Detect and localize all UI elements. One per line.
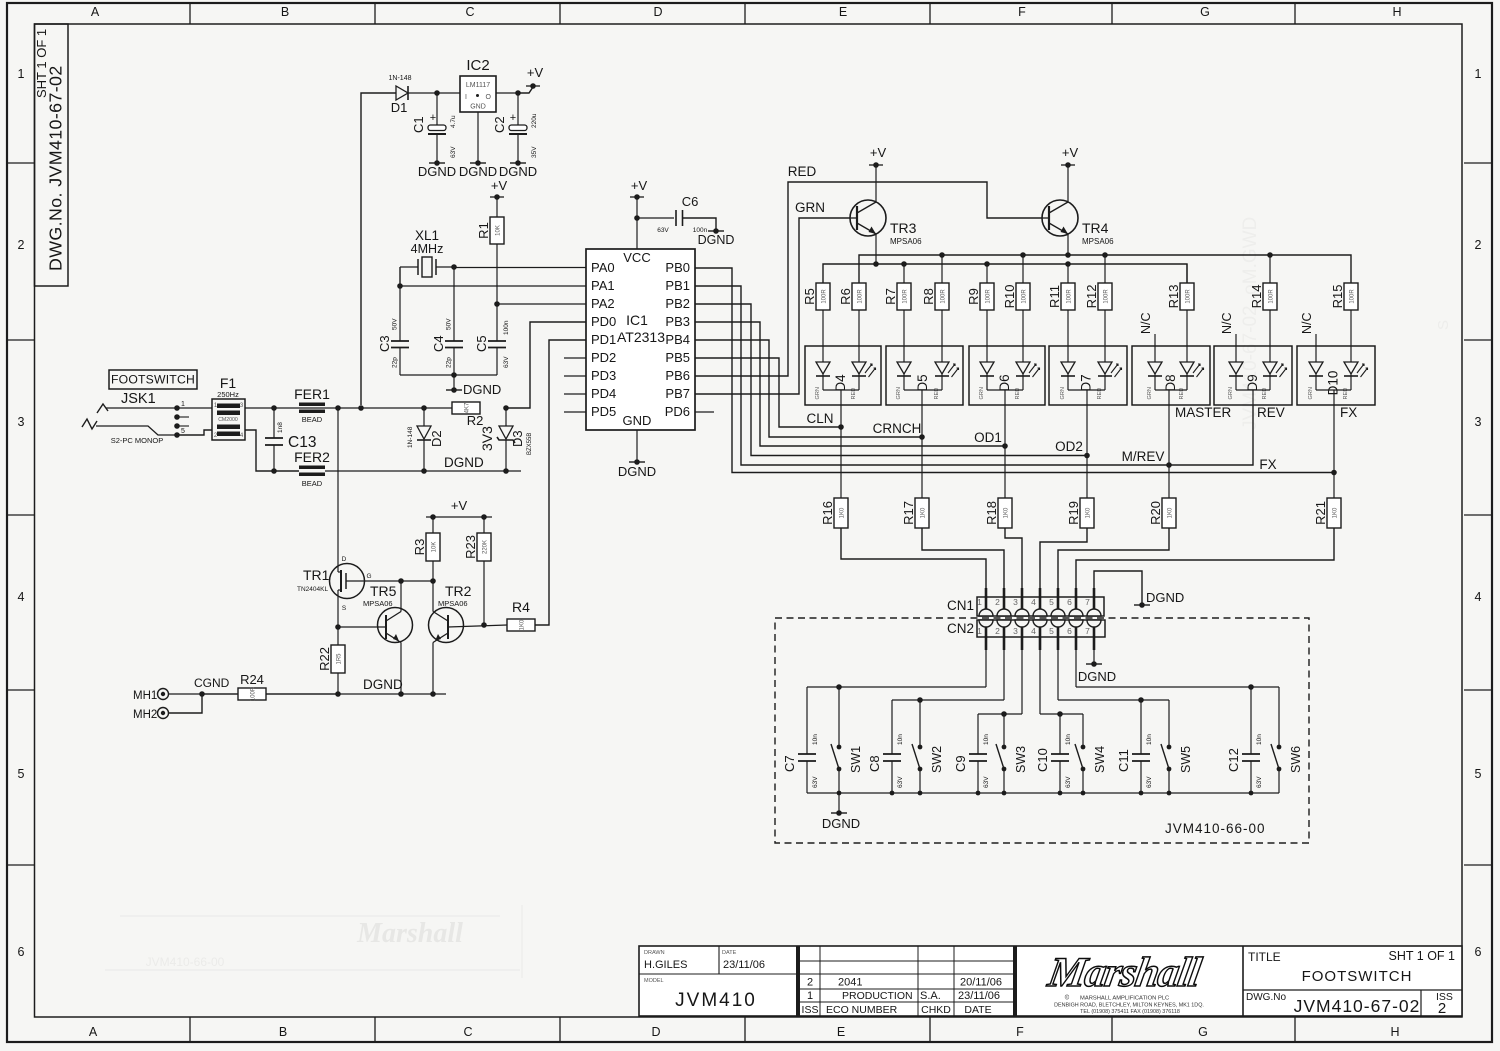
- transistor TR4 (RED driver): [1042, 200, 1078, 236]
- svg-text:1: 1: [1475, 67, 1482, 81]
- LED D9 GRN: [1229, 362, 1243, 374]
- svg-text:IC2: IC2: [466, 57, 489, 74]
- LED D4 GRN: [816, 362, 830, 374]
- svg-text:1: 1: [977, 597, 982, 607]
- svg-text:C9: C9: [953, 755, 968, 772]
- svg-text:+V: +V: [491, 178, 508, 193]
- switch SW4: [1082, 714, 1084, 747]
- svg-text:S: S: [1435, 320, 1452, 330]
- wire TR4 collector to RED bus: [1067, 234, 1069, 255]
- title block title section: [1242, 946, 1244, 1016]
- wire R18 to CN1 pin 3: [1005, 528, 1022, 600]
- node TR5 emitter junction: [398, 691, 404, 697]
- svg-text:D7: D7: [1079, 374, 1094, 391]
- title block thick divider 2: [1013, 946, 1017, 1016]
- svg-text:H.GILES: H.GILES: [644, 959, 687, 971]
- svg-text:1: 1: [807, 990, 813, 1002]
- svg-text:Marshall: Marshall: [1044, 949, 1205, 996]
- svg-text:D: D: [342, 556, 347, 563]
- svg-text:TR1: TR1: [303, 567, 330, 583]
- svg-text:ECO NUMBER: ECO NUMBER: [826, 1004, 898, 1016]
- capacitor C2: [517, 93, 519, 125]
- label FOOTSWITCH: [109, 370, 197, 389]
- node TR1 drain junction: [335, 405, 341, 411]
- svg-text:ISS: ISS: [802, 1004, 819, 1016]
- svg-text:5: 5: [1049, 597, 1054, 607]
- svg-text:DGND: DGND: [418, 164, 456, 179]
- wire D4 cathode to CLN: [840, 405, 842, 427]
- wire TR1 gate node: [365, 580, 434, 582]
- svg-text:TR3: TR3: [890, 220, 917, 236]
- svg-text:R17: R17: [901, 501, 916, 525]
- switch SW5: [1168, 700, 1170, 747]
- svg-text:4: 4: [1031, 626, 1036, 636]
- JSK1 pin 2 stub: [174, 414, 180, 420]
- svg-text:1n8: 1n8: [277, 422, 284, 433]
- svg-text:R7: R7: [883, 288, 898, 305]
- wire D6 cathode join: [987, 389, 1023, 391]
- wire R16 to CN1 pin 1: [841, 528, 986, 600]
- svg-text:JVM410-67-02 .oM.GWD: JVM410-67-02 .oM.GWD: [1240, 217, 1261, 430]
- svg-text:FOOTSWITCH: FOOTSWITCH: [1302, 968, 1413, 985]
- ECO revision table: [800, 960, 1013, 962]
- capacitor C8 10n: [891, 700, 893, 754]
- svg-text:D2: D2: [429, 430, 444, 447]
- CN2 pin 3: [1015, 620, 1029, 627]
- svg-text:C5: C5: [474, 335, 489, 352]
- svg-text:2: 2: [807, 977, 813, 989]
- node CLN junction: [838, 424, 844, 430]
- CN1 pin 1: [979, 609, 993, 616]
- svg-text:MPSA06: MPSA06: [1082, 237, 1114, 246]
- svg-text:GRN: GRN: [979, 387, 985, 399]
- frame column tick dividers top: [189, 3, 191, 24]
- svg-text:D: D: [653, 5, 662, 19]
- wire TR3 collector to GRN bus: [875, 234, 877, 264]
- wire MH1 to R24: [169, 693, 239, 695]
- resistor R5 100R: [816, 283, 830, 310]
- wire PB0 to FX net: [695, 268, 1334, 473]
- svg-text:D6: D6: [997, 374, 1012, 391]
- svg-text:GRN: GRN: [1147, 387, 1153, 399]
- svg-text:R3: R3: [412, 539, 427, 556]
- resistor R8 100R: [941, 255, 943, 283]
- node TR4 collector junction: [1065, 252, 1071, 258]
- svg-text:MH2: MH2: [133, 709, 157, 721]
- svg-text:+V: +V: [870, 145, 887, 160]
- svg-text:C10: C10: [1035, 748, 1050, 772]
- MOSFET TR1 TN2404KL: [337, 408, 339, 572]
- node TR1 source junction: [335, 624, 341, 630]
- node C10 rail junction: [1057, 711, 1063, 717]
- node TR2 emitter junction: [430, 691, 436, 697]
- svg-text:63V: 63V: [812, 776, 819, 788]
- svg-text:DRAWN: DRAWN: [644, 950, 665, 956]
- resistor R14 100R: [1269, 255, 1271, 283]
- svg-text:PA2: PA2: [591, 296, 615, 311]
- svg-text:GRN: GRN: [1228, 387, 1234, 399]
- node R1 PA2 junction: [494, 301, 500, 307]
- wire switch ground rail: [807, 792, 1279, 794]
- diode D1: [396, 86, 408, 100]
- node C11 rail junction: [1138, 697, 1144, 703]
- svg-text:N/C: N/C: [1139, 312, 1153, 334]
- svg-text:3: 3: [1475, 415, 1482, 429]
- resistor R18 1K0: [1004, 446, 1006, 498]
- node C2 top junction: [515, 90, 521, 96]
- svg-text:PB5: PB5: [665, 350, 690, 365]
- CN2 pin 1: [979, 620, 993, 627]
- svg-text:63V: 63V: [983, 776, 990, 788]
- transistor TR3 (GRN driver): [850, 200, 886, 236]
- ground DGND at C6: [708, 230, 724, 232]
- dual LED D9 package box: [1214, 346, 1292, 405]
- svg-text:CN2: CN2: [947, 621, 974, 636]
- wire MH2 to CGND node: [169, 694, 203, 713]
- svg-text:63V: 63V: [1146, 776, 1153, 788]
- dual LED D7 package box: [1049, 346, 1127, 405]
- svg-text:SW2: SW2: [930, 746, 944, 773]
- svg-text:63V: 63V: [1256, 776, 1263, 788]
- svg-text:BZX55B: BZX55B: [527, 433, 533, 455]
- resistor R10 100R: [1022, 255, 1024, 283]
- svg-text:2: 2: [995, 597, 1000, 607]
- svg-text:DGND: DGND: [698, 233, 735, 247]
- node D3 bottom junction: [503, 468, 509, 474]
- ground DGND at C2: [510, 162, 526, 164]
- wire D5 cathode join: [904, 389, 942, 391]
- svg-text:2041: 2041: [838, 977, 862, 989]
- JSK1 pin 5: [174, 432, 180, 438]
- svg-text:1K0: 1K0: [1004, 507, 1010, 518]
- node ground rail junction: [890, 791, 895, 796]
- svg-text:VCC: VCC: [623, 250, 650, 265]
- wire PB2 to OD2 net: [695, 304, 1087, 456]
- node ground rail junction: [918, 791, 923, 796]
- node R14 junction: [1267, 252, 1273, 258]
- svg-text:R24: R24: [240, 672, 264, 687]
- wire D8 cathode to M/REV: [1168, 405, 1170, 465]
- CN1 pin 3: [1015, 609, 1029, 616]
- CN2 pin 2: [997, 620, 1011, 627]
- svg-text:100R: 100R: [986, 289, 992, 304]
- wire D10 cathode to FX: [1333, 405, 1335, 473]
- svg-text:220K: 220K: [483, 540, 489, 554]
- svg-text:2: 2: [18, 238, 25, 252]
- svg-text:B: B: [279, 1025, 287, 1039]
- svg-text:R14: R14: [1249, 285, 1264, 309]
- svg-text:10n: 10n: [983, 734, 990, 745]
- node D2 bottom junction: [421, 468, 427, 474]
- capacitor C10 10n: [1059, 714, 1061, 754]
- svg-text:22p: 22p: [392, 357, 399, 368]
- svg-text:100R: 100R: [1350, 289, 1356, 304]
- svg-text:OD1: OD1: [974, 430, 1002, 445]
- svg-text:R13: R13: [1166, 285, 1181, 309]
- svg-text:R4: R4: [512, 599, 530, 615]
- svg-text:R9: R9: [966, 288, 981, 305]
- svg-text:1R5: 1R5: [337, 653, 343, 665]
- svg-text:63V: 63V: [503, 356, 510, 368]
- wire PA2 net: [497, 303, 586, 305]
- svg-text:C12: C12: [1226, 748, 1241, 772]
- svg-text:C3: C3: [377, 335, 392, 352]
- svg-text:10n: 10n: [1065, 734, 1072, 745]
- capacitor C9 10n: [977, 714, 979, 754]
- svg-text:4: 4: [1031, 597, 1036, 607]
- svg-text:DGND: DGND: [822, 816, 860, 831]
- svg-text:TEL (01908) 375411 FAX (01908): TEL (01908) 375411 FAX (01908) 376118: [1080, 1009, 1180, 1015]
- svg-text:23/11/06: 23/11/06: [723, 959, 765, 971]
- ground DGND at C1: [429, 162, 445, 164]
- LED D10 GRN: [1309, 362, 1323, 374]
- svg-text:FX: FX: [1259, 457, 1276, 472]
- svg-text:DGND: DGND: [363, 677, 403, 692]
- wire DGND bus lower: [200, 693, 446, 695]
- node R11 junction: [1065, 261, 1071, 267]
- node R10 junction: [1020, 252, 1026, 258]
- switch SW1: [838, 687, 840, 747]
- svg-text:TR5: TR5: [370, 583, 397, 599]
- svg-text:2: 2: [995, 626, 1000, 636]
- ground DGND at oscillator: [446, 389, 462, 391]
- capacitor C4: [453, 267, 455, 341]
- svg-text:GRN: GRN: [1060, 387, 1066, 399]
- node ground rail junction: [1139, 791, 1144, 796]
- svg-text:MODEL: MODEL: [644, 978, 664, 984]
- wire IC1 GND pin: [636, 430, 638, 462]
- node C4 top junction: [451, 264, 457, 270]
- svg-text:10n: 10n: [812, 734, 819, 745]
- wire JSK1 tip to F1: [177, 407, 212, 409]
- svg-text:C2: C2: [492, 116, 507, 133]
- svg-text:100R: 100R: [822, 289, 828, 304]
- LED D8 GRN: [1148, 362, 1162, 374]
- svg-text:20/11/06: 20/11/06: [960, 977, 1002, 989]
- svg-text:JSK1: JSK1: [121, 391, 156, 407]
- wire IC2 GND pin: [477, 112, 479, 163]
- svg-text:REV: REV: [1257, 405, 1285, 420]
- node R9 junction: [984, 261, 990, 267]
- dual LED D4 package box: [805, 346, 881, 405]
- svg-text:R15: R15: [1330, 285, 1345, 309]
- CN2 pin 4: [1033, 620, 1047, 627]
- svg-text:+V: +V: [631, 178, 648, 193]
- capacitor C1: [436, 93, 438, 125]
- node oscillator ground junction: [451, 372, 457, 378]
- wire JSK1 sleeve to F1: [177, 430, 212, 435]
- svg-text:6: 6: [1475, 945, 1482, 959]
- power +V at R1: [490, 196, 504, 198]
- node R12 junction: [1102, 252, 1108, 258]
- LED D10 RED: [1344, 362, 1358, 374]
- frame row tick dividers right: [1464, 162, 1492, 164]
- power +V at TR3 emitter: [875, 165, 877, 202]
- ground DGND at IC1: [629, 461, 645, 463]
- node TR3 collector junction: [873, 261, 879, 267]
- svg-text:+V: +V: [527, 65, 544, 80]
- unconnected N/C stub at D9 GRN: [1235, 334, 1237, 362]
- capacitor C13 1n8: [273, 408, 275, 438]
- svg-text:MH1: MH1: [133, 690, 157, 702]
- svg-text:TR2: TR2: [445, 583, 472, 599]
- wire PB3 to OD1 net: [695, 322, 1005, 446]
- wire R4 to PD1: [535, 340, 586, 625]
- wire R19 to CN1 pin 4: [1040, 528, 1087, 600]
- svg-text:100R: 100R: [941, 289, 947, 304]
- svg-text:SW4: SW4: [1093, 746, 1107, 773]
- svg-text:100R: 100R: [1269, 289, 1275, 304]
- svg-text:I: I: [465, 94, 467, 101]
- svg-text:50V: 50V: [446, 318, 453, 330]
- svg-text:F1: F1: [220, 375, 237, 391]
- node ground rail junction: [837, 791, 842, 796]
- node R22 ground junction: [335, 691, 341, 697]
- resistor R9 100R: [986, 264, 988, 283]
- svg-text:AT2313: AT2313: [617, 329, 665, 345]
- svg-text:100R: 100R: [903, 289, 909, 304]
- svg-text:F: F: [1016, 1025, 1024, 1039]
- svg-text:E: E: [839, 5, 847, 19]
- svg-text:SW6: SW6: [1289, 746, 1303, 773]
- zener diode D3 BZX55B 3V3: [505, 408, 507, 426]
- svg-text:DGND: DGND: [1146, 590, 1184, 605]
- svg-text:10n: 10n: [1146, 734, 1153, 745]
- svg-text:10n: 10n: [1256, 734, 1263, 745]
- svg-text:GRN: GRN: [795, 200, 825, 215]
- node R2 right junction: [503, 405, 509, 411]
- unconnected N/C stub at D8 GRN: [1154, 334, 1156, 362]
- svg-text:GND: GND: [623, 413, 652, 428]
- svg-text:6: 6: [1067, 626, 1072, 636]
- svg-text:SW3: SW3: [1014, 746, 1028, 773]
- diode D2 1N4148: [423, 408, 425, 426]
- wire D9 cathode join: [1236, 389, 1270, 391]
- svg-text:C: C: [463, 1025, 472, 1039]
- connector CN1: [977, 597, 1104, 616]
- node R7 junction: [901, 261, 907, 267]
- svg-text:23/11/06: 23/11/06: [958, 990, 1000, 1002]
- wire F1 pin2 to FER2: [245, 430, 299, 471]
- wire CN2 pin to SW2 rail: [1003, 650, 1005, 700]
- svg-text:S2-PC MONOP: S2-PC MONOP: [111, 436, 164, 445]
- svg-text:DGND: DGND: [618, 464, 656, 479]
- svg-text:PB7: PB7: [665, 386, 690, 401]
- resistor R7 100R: [903, 264, 905, 283]
- svg-text:10K: 10K: [496, 225, 502, 236]
- CN2 pin 6: [1069, 620, 1083, 627]
- svg-text:2: 2: [1438, 1000, 1446, 1017]
- svg-text:CN1: CN1: [947, 598, 974, 613]
- resistor R11 100R: [1067, 264, 1069, 283]
- resistor R2 4K7: [452, 402, 480, 414]
- svg-text:D9: D9: [1245, 374, 1260, 391]
- ground DGND at CN2 pin 7: [1086, 663, 1102, 665]
- svg-text:DGND: DGND: [459, 164, 497, 179]
- node C12 rail junction: [1248, 684, 1254, 690]
- pin stub PD6 unconnected: [695, 411, 714, 413]
- wire XL1 left to C3: [399, 267, 401, 286]
- svg-text:G: G: [1200, 5, 1210, 19]
- svg-text:100R: 100R: [251, 686, 257, 701]
- svg-text:M/REV: M/REV: [1122, 449, 1165, 464]
- svg-text:OD2: OD2: [1055, 439, 1083, 454]
- wire D6 cathode to OD1: [1004, 405, 1006, 446]
- wire D10 cathode join: [1316, 389, 1351, 391]
- LED D8 RED: [1180, 362, 1194, 374]
- svg-text:CM2000: CM2000: [218, 417, 238, 423]
- svg-text:G: G: [366, 573, 371, 580]
- capacitor C11 10n: [1140, 700, 1142, 754]
- svg-text:CRNCH: CRNCH: [873, 421, 922, 436]
- svg-text:C1: C1: [411, 116, 426, 133]
- svg-text:R5: R5: [802, 288, 817, 305]
- svg-text:FER1: FER1: [294, 386, 330, 402]
- svg-text:RED: RED: [788, 164, 817, 179]
- svg-text:LM1117: LM1117: [466, 82, 490, 89]
- switch SW2: [919, 700, 921, 747]
- svg-text:C7: C7: [782, 755, 797, 772]
- svg-text:R19: R19: [1066, 501, 1081, 525]
- svg-text:PB1: PB1: [665, 278, 690, 293]
- svg-text:1K0: 1K0: [921, 507, 927, 518]
- svg-text:B: B: [281, 5, 289, 19]
- wire PB4 to CRNCH net: [695, 340, 921, 437]
- frame row tick dividers left: [7, 162, 35, 164]
- svg-text:1: 1: [181, 401, 185, 408]
- resistor R21 1K0: [1333, 473, 1335, 499]
- svg-text:R2: R2: [467, 413, 484, 428]
- svg-text:CLN: CLN: [806, 411, 833, 426]
- svg-text:S: S: [342, 605, 347, 612]
- svg-text:22p: 22p: [446, 357, 453, 368]
- node ground rail junction: [1058, 791, 1063, 796]
- svg-text:PB3: PB3: [665, 314, 690, 329]
- resistor R22 1R5: [337, 627, 339, 645]
- svg-text:D1: D1: [391, 100, 408, 115]
- sheet number box left margin: [35, 24, 69, 286]
- power +V at TR4 emitter: [1067, 165, 1069, 202]
- svg-text:1: 1: [977, 626, 982, 636]
- svg-text:63V: 63V: [897, 776, 904, 788]
- svg-text:4MHz: 4MHz: [411, 242, 444, 256]
- power +V at IC1 VCC: [630, 196, 644, 198]
- svg-text:63V: 63V: [1065, 776, 1072, 788]
- LED D6 RED: [1016, 362, 1030, 374]
- wire CN2 pin to SW1 rail: [985, 650, 987, 687]
- svg-text:3: 3: [1013, 597, 1018, 607]
- svg-text:JVM410-66-00: JVM410-66-00: [146, 955, 225, 969]
- svg-text:SW1: SW1: [849, 746, 863, 773]
- svg-text:BEAD: BEAD: [302, 415, 323, 424]
- node C7 rail junction: [836, 684, 842, 690]
- svg-text:100R: 100R: [1067, 289, 1073, 304]
- svg-text:TR4: TR4: [1082, 220, 1109, 236]
- svg-text:+V: +V: [1062, 145, 1079, 160]
- dual LED D5 package box: [886, 346, 963, 405]
- svg-text:5: 5: [1049, 626, 1054, 636]
- svg-text:TN2404KL: TN2404KL: [297, 586, 328, 593]
- svg-text:PRODUCTION: PRODUCTION: [842, 990, 913, 1002]
- svg-text:N/C: N/C: [1220, 312, 1234, 334]
- resistor R6 100R: [852, 283, 866, 310]
- svg-text:MASTER: MASTER: [1175, 405, 1232, 420]
- svg-text:JVM410-67-02: JVM410-67-02: [1294, 996, 1421, 1016]
- node ground rail junction: [1249, 791, 1254, 796]
- svg-text:7: 7: [1085, 597, 1090, 607]
- svg-text:PD6: PD6: [665, 404, 690, 419]
- svg-text:D3: D3: [510, 430, 525, 447]
